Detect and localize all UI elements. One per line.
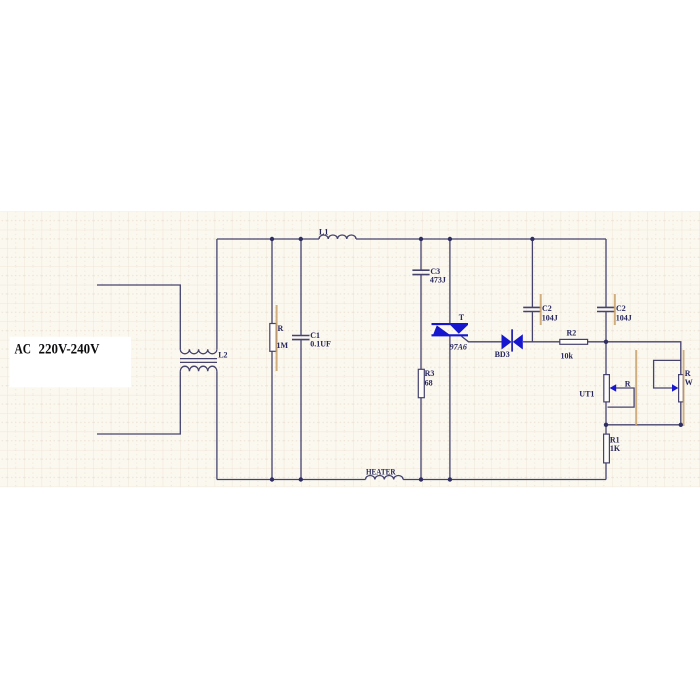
svg-text:C2: C2 (542, 304, 552, 313)
svg-text:0.1UF: 0.1UF (310, 340, 331, 349)
svg-text:C2: C2 (616, 304, 626, 313)
svg-text:R: R (685, 369, 691, 378)
svg-text:BD3: BD3 (495, 350, 510, 359)
svg-text:R3: R3 (425, 369, 435, 378)
svg-text:W: W (685, 378, 693, 387)
svg-text:68: 68 (425, 379, 433, 388)
svg-text:T: T (459, 313, 465, 322)
svg-text:L2: L2 (218, 351, 227, 360)
svg-text:1K: 1K (610, 444, 621, 453)
svg-text:97A6: 97A6 (450, 343, 467, 352)
svg-text:AC: AC (15, 342, 32, 358)
svg-text:R: R (278, 324, 284, 333)
svg-text:473J: 473J (430, 276, 446, 285)
svg-text:1M: 1M (277, 341, 289, 350)
svg-text:UT1: UT1 (579, 389, 594, 398)
svg-text:104J: 104J (542, 314, 558, 323)
svg-text:L1: L1 (319, 227, 328, 236)
svg-text:104J: 104J (616, 314, 632, 323)
svg-text:R2: R2 (567, 329, 577, 338)
svg-text:R: R (625, 380, 631, 389)
svg-text:220V-240V: 220V-240V (39, 342, 100, 358)
svg-text:10k: 10k (561, 351, 574, 360)
svg-text:HEATER: HEATER (366, 468, 396, 477)
